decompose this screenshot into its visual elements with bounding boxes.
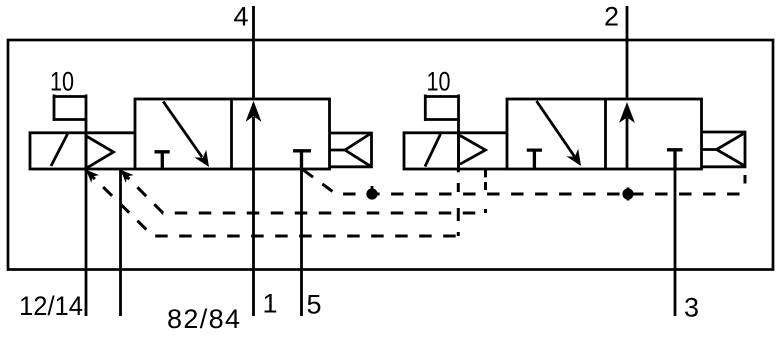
wire port 3 vertical — [674, 150, 677, 316]
spring box V1 (air return) — [330, 133, 372, 167]
solenoid coil left — [30, 133, 86, 169]
valve V2 flow arrow (left chamber) — [537, 101, 582, 166]
valve V2 chamber divider — [604, 99, 607, 169]
pilot line B (82/84 to V2 pilot), dashed — [121, 170, 486, 213]
svg-text:1: 1 — [263, 289, 278, 319]
spring box V2 (air return) — [702, 132, 746, 167]
pilot triangle right — [460, 136, 486, 165]
pilot line C solid stub at V2 coil — [457, 169, 460, 236]
connector bracket left (coil terminal) — [54, 95, 87, 122]
junction dot right — [622, 188, 633, 201]
svg-text:10: 10 — [427, 67, 451, 97]
svg-text:82/84: 82/84 — [167, 304, 240, 334]
solenoid coil right slash — [425, 134, 441, 167]
svg-text:12/14: 12/14 — [19, 291, 83, 321]
air return triangle V1 — [330, 133, 372, 167]
junction dot left (spring box branch) — [366, 186, 377, 200]
solenoid coil left slash — [51, 134, 68, 166]
actuator box right (pilot section) — [459, 133, 508, 169]
port label 5 — [307, 290, 322, 320]
valve V2 flow arrow up (3->2) — [619, 102, 635, 169]
wire port 4 line — [252, 6, 255, 100]
value label 10 (left coil) — [50, 67, 74, 97]
solenoid coil right — [404, 133, 459, 169]
pilot line A (5 to air-return network), dashed — [303, 170, 745, 194]
valve V2 body — [507, 99, 702, 169]
valve V2 blocked port T (left chamber) — [527, 150, 542, 169]
pilot triangle left — [87, 137, 114, 168]
valve V1 chamber divider — [230, 99, 233, 169]
value label 10 (right coil) — [427, 67, 451, 97]
wire pilot port 82/84 vertical — [119, 169, 122, 316]
valve V1 flow arrow up (right chamber, 1->4) — [246, 101, 262, 169]
valve V2 blocked port T (port 3) — [667, 150, 683, 169]
wire port 1 vertical — [252, 169, 255, 316]
pilot line C arrowhead at 12/14 junction — [86, 170, 99, 183]
svg-text:2: 2 — [604, 2, 619, 32]
port label 12/14 — [19, 291, 83, 321]
pilot line A riser dash at spring box — [744, 175, 747, 184]
enclosure frame — [8, 40, 773, 270]
valve V1 flow arrow (left chamber, 1->3) — [163, 102, 209, 168]
svg-text:4: 4 — [234, 2, 249, 32]
port label 3 — [684, 293, 699, 323]
wire port 5 vertical — [300, 169, 303, 316]
air return triangle V2 — [702, 133, 746, 166]
svg-text:3: 3 — [684, 293, 699, 323]
wire pilot port 12/14 vertical — [85, 95, 88, 317]
pilot line B arrowhead at 82/84 junction — [121, 170, 134, 183]
port label 82/84 — [167, 304, 240, 334]
svg-text:5: 5 — [307, 290, 322, 320]
valve V1 blocked port T (left chamber) — [155, 152, 170, 169]
valve V1 blocked port T (port 5) — [293, 151, 311, 169]
wire port 2 line — [626, 6, 629, 100]
pilot line B solid stub at V2 pilot — [484, 169, 487, 213]
port label 1 — [263, 289, 278, 319]
wire coil terminal right vertical — [457, 95, 460, 170]
svg-text:10: 10 — [50, 67, 74, 97]
actuator box left (pilot section) — [86, 133, 135, 169]
connector bracket right (coil terminal) — [425, 95, 459, 122]
valve V1 body — [135, 99, 330, 169]
pilot line C (12/14 to V2 coil terminal), dashed — [86, 170, 458, 236]
port label 4 — [234, 2, 249, 32]
port label 2 — [604, 2, 619, 32]
